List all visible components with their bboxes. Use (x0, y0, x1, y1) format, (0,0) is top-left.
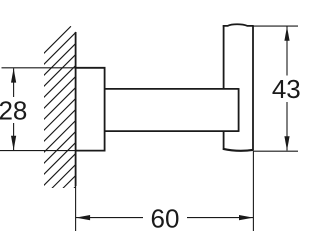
dim 28 line upper segment (13, 68, 15, 97)
mounting plate (rosette) (76, 68, 105, 151)
dim 60 arrow left (76, 215, 90, 220)
dim 43 line upper segment (286, 27, 288, 76)
post bottom curved edge (223, 149, 254, 151)
dim 28 arrow down (11, 136, 16, 150)
arm bottom edge (105, 130, 239, 132)
post top edge with bump (223, 24, 254, 26)
post right edge (252, 25, 254, 150)
arm top edge (105, 88, 239, 90)
dim 28 line lower segment (13, 123, 15, 150)
dim 60 line right segment (187, 217, 253, 219)
dim 28 arrow up (11, 68, 16, 82)
dim 60 arrow right (239, 215, 253, 220)
dim 43 extension line bottom (254, 150, 298, 152)
wall hatching (0, 0, 250, 250)
dim 43 line lower segment (286, 102, 288, 151)
dim 60 line left segment (76, 217, 143, 219)
dim 60 extension line right (252, 151, 254, 231)
dim 43 arrow up (284, 27, 289, 41)
post left edge upper (223, 25, 225, 89)
arm end cap (238, 88, 240, 132)
dim 43 extension line top (253, 25, 298, 27)
dim 28 extension line bottom (0, 150, 76, 152)
svg-text:60: 60 (151, 203, 180, 233)
dim 43 arrow down (284, 136, 289, 150)
svg-text:43: 43 (272, 74, 300, 104)
svg-text:28: 28 (0, 96, 27, 126)
dim 28 extension line top (2, 67, 76, 69)
wall face line (75, 32, 77, 186)
dim 60 extension line left (75, 186, 77, 231)
post left edge lower (223, 131, 225, 149)
